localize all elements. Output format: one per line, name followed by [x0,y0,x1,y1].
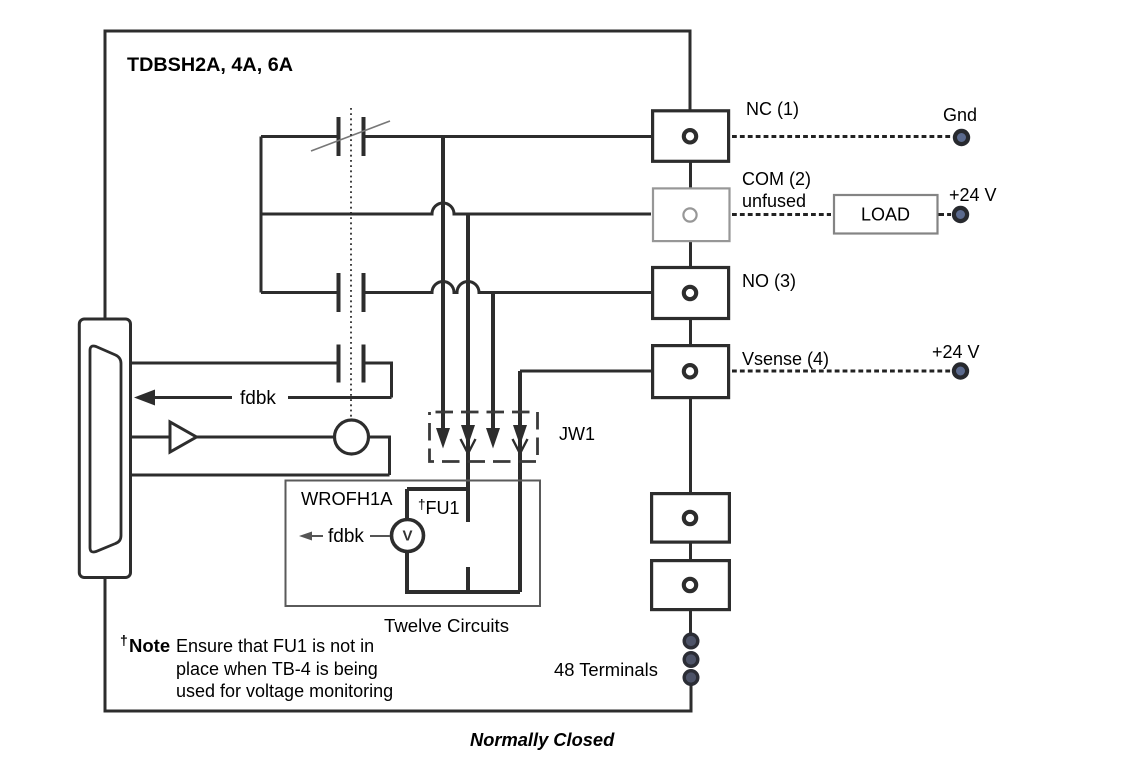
wire vertical drop 4 through JW1 into WROFH1A [518,371,522,592]
connector J1 D-shell face [90,346,121,552]
fdbk arrow inside WROFH1A [311,535,323,537]
svg-text:COM (2): COM (2) [742,169,811,189]
ellipsis terminal dot 2 [684,653,698,667]
svg-text:Vsense (4): Vsense (4) [742,349,829,369]
relay contact (NC) on row 1 [339,117,364,156]
fuse FU1 upper stub [407,489,468,522]
wire bottom rail of FU1 circuit [405,590,520,594]
ellipsis terminal dot 1 [684,634,698,648]
terminal NO (3) box [653,268,729,319]
terminal box 5 [652,494,730,542]
wire NC line (row 1) [261,135,652,138]
svg-text:NO (3): NO (3) [742,271,796,291]
svg-text:V: V [402,528,412,545]
dashed wire Vsense to +24V [732,370,951,373]
ellipsis terminal dot 3 [684,671,698,685]
svg-text:Ensure that FU1 is not in: Ensure that FU1 is not in [176,636,374,656]
WROFH1A block box [286,481,541,607]
terminal chain verticals [689,162,693,711]
wire COM line (row 2) with hop [261,203,651,214]
wire amplifier row [131,437,390,475]
svg-text:fdbk: fdbk [328,526,364,547]
module outline bottom border [104,684,692,711]
dotted mechanical linkage [350,108,352,418]
svg-text:TDBSH2A, 4A, 6A: TDBSH2A, 4A, 6A [127,54,293,76]
svg-text:Gnd: Gnd [943,105,977,125]
wire voltmeter bottom [405,551,409,592]
node Gnd dot [955,131,968,144]
jumper chevron drop 4 [513,439,528,454]
terminal NC (1) box [653,111,729,162]
arrowhead drop 3 [486,428,500,449]
wire voltmeter top [405,489,409,520]
svg-text:48 Terminals: 48 Terminals [554,659,658,680]
wire vertical drop 3 to JW1 [491,293,495,432]
arrowhead drop 4 [513,425,527,446]
wire vertical drop 2 through JW1 into WROFH1A [466,214,470,522]
relay contact (fdbk) on row A [339,345,364,383]
wire NO line (row 3) with contact and two hops [261,282,651,293]
wire fdbk return [152,396,392,399]
svg-text:WROFH1A: WROFH1A [301,488,393,509]
jumper block JW1 dashed box [430,412,538,462]
svg-text:†: † [120,632,128,648]
relay contact (NO) on row 3 [339,273,364,312]
wire bottom return to connector [131,474,390,477]
svg-text:LOAD: LOAD [861,205,910,225]
dashed wire COM to LOAD [732,213,831,216]
relay coil circle [335,420,369,454]
LOAD block [834,195,938,234]
wire Vsense line (row 4) [520,370,651,373]
svg-text:Twelve Circuits: Twelve Circuits [384,615,509,636]
svg-text:NC (1): NC (1) [746,99,799,119]
node +24V dot (COM row) [954,208,967,221]
svg-text:Normally Closed: Normally Closed [470,729,615,750]
dashed wire LOAD to +24V [939,213,952,216]
svg-text:unfused: unfused [742,191,806,211]
wire vertical drop 1 to JW1 [441,137,445,432]
dashed wire NC to Gnd [732,135,951,138]
svg-text:place when TB-4 is being: place when TB-4 is being [176,659,378,679]
svg-text:JW1: JW1 [559,424,595,444]
svg-text:+24 V: +24 V [949,185,997,205]
connector J1 body [79,319,130,578]
buffer amplifier triangle [170,422,197,452]
jumper chevron drop 2 [461,439,476,454]
node +24V dot (Vsense row) [954,364,967,377]
terminal Vsense (4) box [653,346,729,398]
svg-text:Note: Note [129,635,170,656]
terminal box 6 [652,561,730,610]
arrowhead drop 1 [436,428,450,449]
wire fdbk feed (row A) with contact [131,363,392,398]
svg-text:+24 V: +24 V [932,342,980,362]
module outline top border [105,31,690,713]
voltmeter V1 [392,520,424,552]
NC contact slash [311,121,390,151]
arrowhead drop 2 [461,425,475,446]
svg-text:used for voltage monitoring: used for voltage monitoring [176,681,393,701]
svg-text:fdbk: fdbk [240,388,276,409]
terminal COM (2) box (unfused, gray) [653,188,730,241]
wire bus branch vertical (left) [260,137,263,293]
fuse FU1 lower stub [466,567,470,592]
arrowhead fdbk into connector [134,390,155,406]
